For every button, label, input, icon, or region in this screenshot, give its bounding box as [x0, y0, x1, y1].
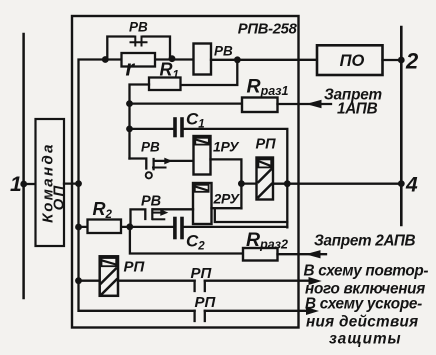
svg-text:защиты: защиты	[329, 331, 402, 348]
svg-text:1РУ: 1РУ	[213, 139, 240, 155]
svg-text:РП: РП	[256, 137, 277, 153]
svg-text:Rраз2: Rраз2	[246, 229, 288, 252]
svg-text:2: 2	[405, 49, 419, 74]
svg-text:ния действия: ния действия	[306, 314, 418, 331]
svg-text:ПО: ПО	[340, 52, 365, 70]
svg-text:Запрет 2АПВ: Запрет 2АПВ	[314, 233, 416, 250]
svg-text:2РУ: 2РУ	[213, 191, 241, 207]
svg-text:РП: РП	[124, 259, 146, 276]
svg-text:РВ: РВ	[214, 44, 233, 59]
svg-text:РПВ-258: РПВ-258	[238, 22, 298, 38]
svg-text:r: r	[126, 56, 136, 81]
svg-text:В схему ускоре-: В схему ускоре-	[305, 296, 422, 313]
svg-text:РП: РП	[191, 265, 213, 282]
svg-text:1АПВ: 1АПВ	[337, 101, 378, 118]
svg-text:В схему повтор-: В схему повтор-	[304, 263, 429, 280]
svg-text:ОП: ОП	[51, 184, 68, 211]
svg-text:РВ: РВ	[129, 20, 148, 35]
svg-text:1: 1	[10, 173, 22, 196]
svg-text:С2: С2	[186, 232, 205, 253]
svg-text:4: 4	[405, 174, 418, 197]
svg-text:РВ: РВ	[141, 140, 160, 155]
svg-text:С1: С1	[186, 110, 205, 131]
svg-text:R1: R1	[160, 60, 179, 82]
svg-text:РП: РП	[195, 294, 217, 311]
svg-text:Rраз1: Rраз1	[247, 76, 289, 99]
svg-text:R2: R2	[93, 199, 113, 221]
svg-text:РВ: РВ	[141, 194, 161, 210]
